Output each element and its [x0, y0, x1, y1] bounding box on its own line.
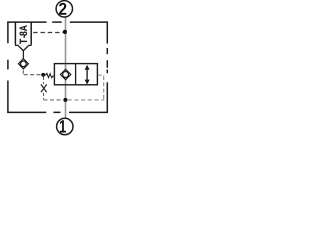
manifold boundary left edge (chain dashed) — [7, 21, 9, 43]
cavity seat shoulders and funnel — [15, 44, 32, 46]
pilot line from check valve down then right to spring junction — [22, 70, 24, 74]
spring — [43, 73, 54, 77]
wire: funnel stem to check ball — [22, 50, 24, 59]
node: lower junction on port line — [63, 98, 67, 102]
valve box divider — [75, 64, 77, 85]
manifold boundary right edge (chain dashed) — [106, 21, 108, 43]
pilot stub from valve right side to boundary — [98, 74, 104, 76]
port 1 circle — [57, 118, 73, 134]
node: spring junction dot — [41, 73, 45, 77]
pilot line from plug to port line junction — [33, 32, 63, 34]
label T-8A — [20, 25, 27, 44]
manifold boundary top edge (chain dashed) — [7, 21, 46, 23]
check valve symbol in left cell — [60, 69, 70, 79]
port 2 circle — [56, 1, 72, 17]
wire: main port line from port 2 to port 1 — [65, 17, 67, 118]
cavity plug T-8A outline (open-bottom tube) — [15, 22, 31, 45]
orifice (restriction) — [41, 84, 47, 92]
pilot line: junction dot down-left branch with orifice — [43, 77, 45, 84]
check valve (ball in seat) under plug — [18, 59, 28, 69]
manifold boundary bottom edge (chain dashed) — [7, 111, 46, 113]
pilot line: bottom horizontal run — [44, 99, 64, 101]
pilot line: right vertical run — [103, 76, 105, 100]
node: junction on port line (upper) — [63, 30, 67, 34]
valve body box — [54, 64, 97, 85]
double-headed flow arrow in right cell — [85, 65, 90, 85]
